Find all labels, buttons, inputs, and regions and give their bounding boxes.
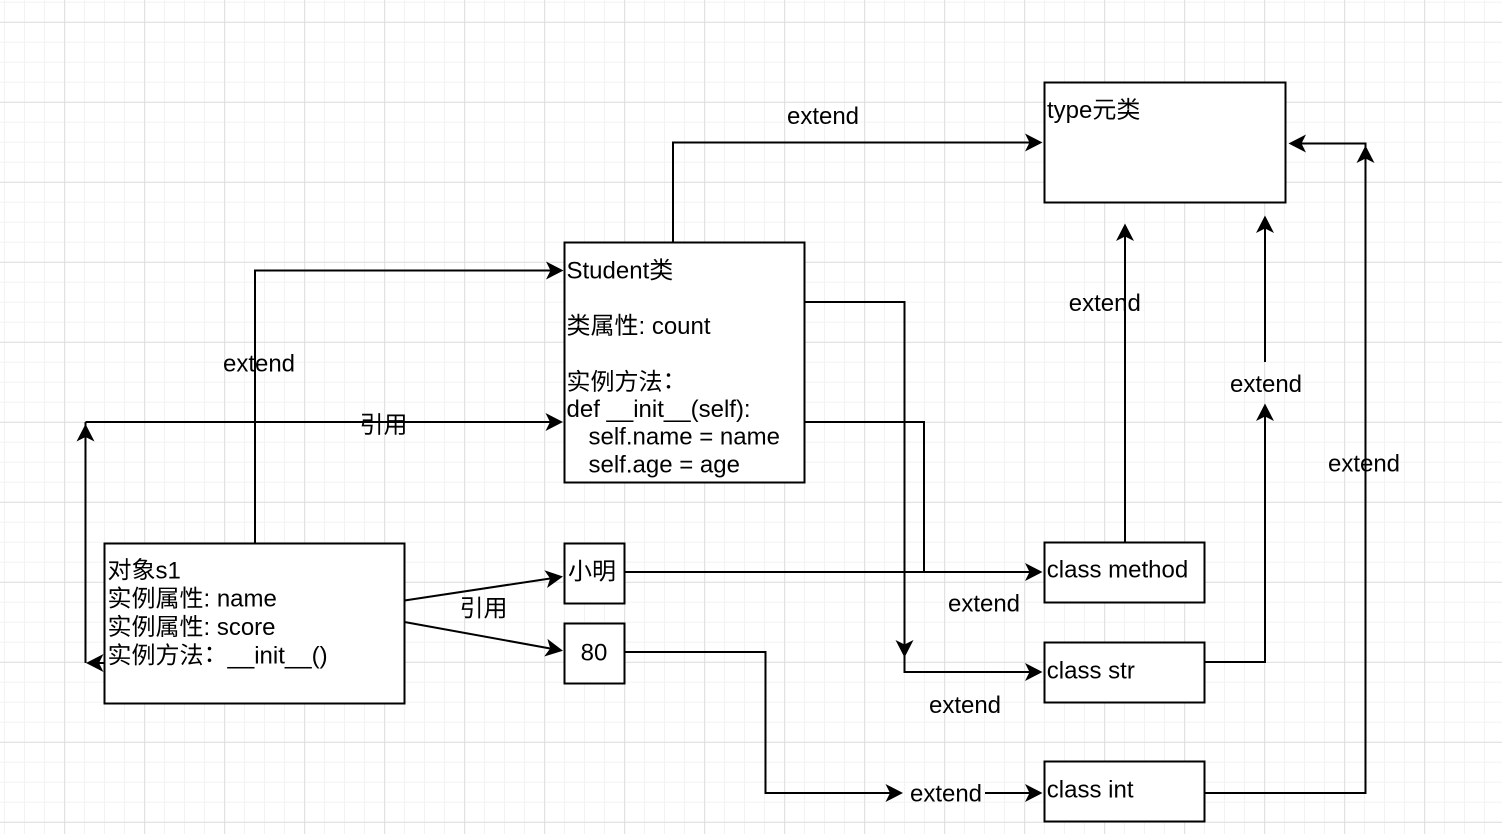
- svg-text:: count: : count: [639, 313, 711, 340]
- svg-text:: name: : name: [204, 586, 277, 613]
- svg-text:extend: extend: [929, 692, 1001, 719]
- svg-text:extend: extend: [223, 351, 295, 378]
- svg-text:type: type: [1047, 97, 1092, 124]
- svg-text:__init__(): __init__(): [227, 643, 328, 670]
- svg-text:class str: class str: [1047, 658, 1135, 685]
- svg-text:class method: class method: [1047, 557, 1188, 584]
- svg-text:class int: class int: [1047, 777, 1134, 804]
- svg-text:extend: extend: [1230, 371, 1302, 398]
- svg-text:extend: extend: [787, 103, 859, 130]
- svg-text:extend: extend: [948, 591, 1020, 618]
- svg-text:extend: extend: [1328, 451, 1400, 478]
- svg-text:extend: extend: [910, 781, 982, 808]
- svg-text:extend: extend: [1069, 290, 1141, 317]
- svg-text:self.name = name: self.name = name: [589, 424, 780, 451]
- svg-text:80: 80: [581, 640, 608, 667]
- svg-text:self.age = age: self.age = age: [589, 451, 740, 478]
- svg-text:def __init__(self):: def __init__(self):: [567, 396, 751, 423]
- svg-text:Student: Student: [567, 258, 650, 285]
- svg-text:s1: s1: [156, 557, 181, 584]
- svg-text:: score: : score: [204, 614, 276, 641]
